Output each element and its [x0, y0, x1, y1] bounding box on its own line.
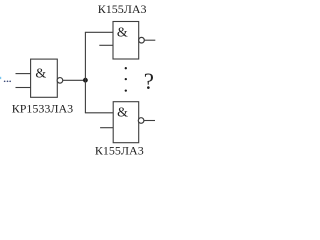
wire: top gate input stub 2: [99, 44, 113, 46]
wire: D1 output to junction: [63, 79, 86, 81]
wire: input stub 1 of D1: [16, 73, 31, 75]
wire: bottom gate input stub 2: [100, 127, 113, 129]
wire: vertical fan-out bus: [84, 32, 86, 113]
inversion bubble of D3: [138, 118, 144, 124]
svg-text:?: ?: [144, 69, 154, 94]
svg-text:&: &: [117, 105, 128, 120]
svg-text:К155ЛА3: К155ЛА3: [98, 2, 147, 16]
svg-text:КР1533ЛА3: КР1533ЛА3: [12, 102, 73, 116]
svg-text:&: &: [117, 25, 128, 40]
wire: D3 output stub: [144, 120, 155, 122]
wire: bus to top gate input 1: [85, 31, 113, 33]
svg-text:&: &: [35, 66, 46, 81]
wire: input stub 2 of D1: [16, 87, 31, 89]
svg-text:К155ЛА3: К155ЛА3: [95, 144, 144, 158]
NAND gate D2 body (top К155ЛА3): [113, 22, 139, 60]
wire: D2 output stub: [144, 39, 155, 41]
inversion bubble of D1: [57, 78, 63, 84]
wire: bus to bottom gate input 1: [85, 112, 113, 114]
NAND gate D3 body (bottom К155ЛА3): [113, 102, 139, 143]
vertical ellipsis between gates: [125, 67, 127, 92]
inversion bubble of D2: [139, 37, 145, 43]
junction node dot: [83, 78, 88, 83]
cyan artifact at left edge: [0, 77, 1, 79]
NAND gate D1 body (КР1533ЛА3): [31, 59, 58, 97]
ellipsis (hidden inputs) left of gate D1: [4, 80, 11, 82]
